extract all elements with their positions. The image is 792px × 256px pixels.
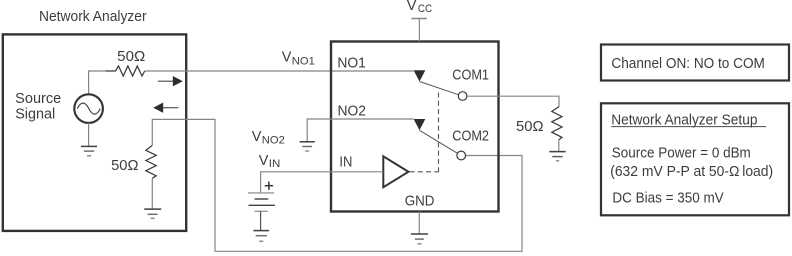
svg-text:V: V xyxy=(407,0,417,14)
svg-text:Signal: Signal xyxy=(15,107,55,123)
arrow left (return direction into analyzer) xyxy=(163,107,179,109)
COM1 contact circle xyxy=(458,92,467,101)
svg-text:Network Analyzer Setup: Network Analyzer Setup xyxy=(611,112,757,128)
svg-text:V: V xyxy=(282,50,292,66)
wire return net: from R2 top, across, down, along bottom, up to COM2 xyxy=(152,119,522,251)
svg-text:50Ω: 50Ω xyxy=(111,158,139,174)
svg-text:Network Analyzer: Network Analyzer xyxy=(39,9,147,25)
ground (below battery) xyxy=(254,231,270,242)
svg-text:NO1: NO1 xyxy=(292,55,315,67)
svg-text:NO2: NO2 xyxy=(338,104,367,120)
COM2 contact circle xyxy=(457,151,466,160)
wire R1 to NO1 pin xyxy=(145,70,414,72)
ground (below source) xyxy=(81,146,97,155)
IC box U1 xyxy=(331,42,499,212)
svg-text:V: V xyxy=(259,153,269,169)
wire COM1 to RT 50Ω xyxy=(467,96,559,106)
svg-text:50Ω: 50Ω xyxy=(516,119,544,135)
battery V2 plates xyxy=(248,192,274,194)
ground (below RT) xyxy=(549,152,565,161)
battery stem to ground xyxy=(260,211,262,230)
resistor RT 50Ω termination xyxy=(552,107,562,140)
wire R2 bottom to ground xyxy=(151,178,153,209)
VCC T-bar and stem xyxy=(411,18,426,20)
resistor R2 50Ω shunt in analyzer xyxy=(146,145,156,178)
svg-text:Source Power = 0 dBm: Source Power = 0 dBm xyxy=(612,145,751,161)
battery V2 plus sign xyxy=(265,185,273,187)
annotation box: Network Analyzer Setup xyxy=(601,103,789,215)
AC source V1 xyxy=(74,94,103,123)
wire NO2 pin to ground stub xyxy=(307,119,413,142)
switch throw line to COM2 xyxy=(420,130,458,153)
annotation box: Channel ON xyxy=(601,45,789,81)
driver buffer triangle xyxy=(383,156,408,187)
svg-text:Channel ON: NO to COM: Channel ON: NO to COM xyxy=(611,55,765,72)
svg-text:NO1: NO1 xyxy=(337,56,366,72)
svg-text:NO2: NO2 xyxy=(262,135,285,147)
switch pole arrow NO2 xyxy=(414,119,426,130)
arrow right (signal direction out of analyzer) xyxy=(158,80,174,82)
svg-text:COM1: COM1 xyxy=(452,68,489,84)
ground (below R2) xyxy=(144,209,161,218)
Network Analyzer enclosure box xyxy=(3,34,186,231)
switch pole arrow NO1 xyxy=(414,70,426,81)
switch throw line to COM1 xyxy=(420,82,459,95)
dashed control line horizontal from buffer xyxy=(410,171,439,173)
resistor R1 50Ω series xyxy=(106,66,145,76)
svg-text:50Ω: 50Ω xyxy=(117,49,145,65)
wire GND pin to ground xyxy=(418,212,420,234)
svg-text:COM2: COM2 xyxy=(452,129,489,145)
svg-text:DC Bias = 350 mV: DC Bias = 350 mV xyxy=(612,190,724,206)
wire source top to R1 xyxy=(89,71,106,95)
svg-text:IN: IN xyxy=(269,158,281,170)
wire battery to IN pin xyxy=(261,172,384,193)
svg-text:(632 mV P-P at 50-Ω load): (632 mV P-P at 50-Ω load) xyxy=(610,164,773,180)
svg-text:GND: GND xyxy=(405,193,435,209)
wire source bottom to ground xyxy=(88,123,90,146)
ground (IC GND) xyxy=(411,234,428,244)
svg-text:CC: CC xyxy=(418,3,432,15)
wire RT to ground xyxy=(558,140,560,152)
ground (NO2 termination) xyxy=(300,142,315,151)
svg-text:Source: Source xyxy=(15,91,61,107)
dashed control line vertical xyxy=(438,93,440,172)
svg-text:IN: IN xyxy=(339,155,352,171)
svg-text:V: V xyxy=(252,129,262,145)
